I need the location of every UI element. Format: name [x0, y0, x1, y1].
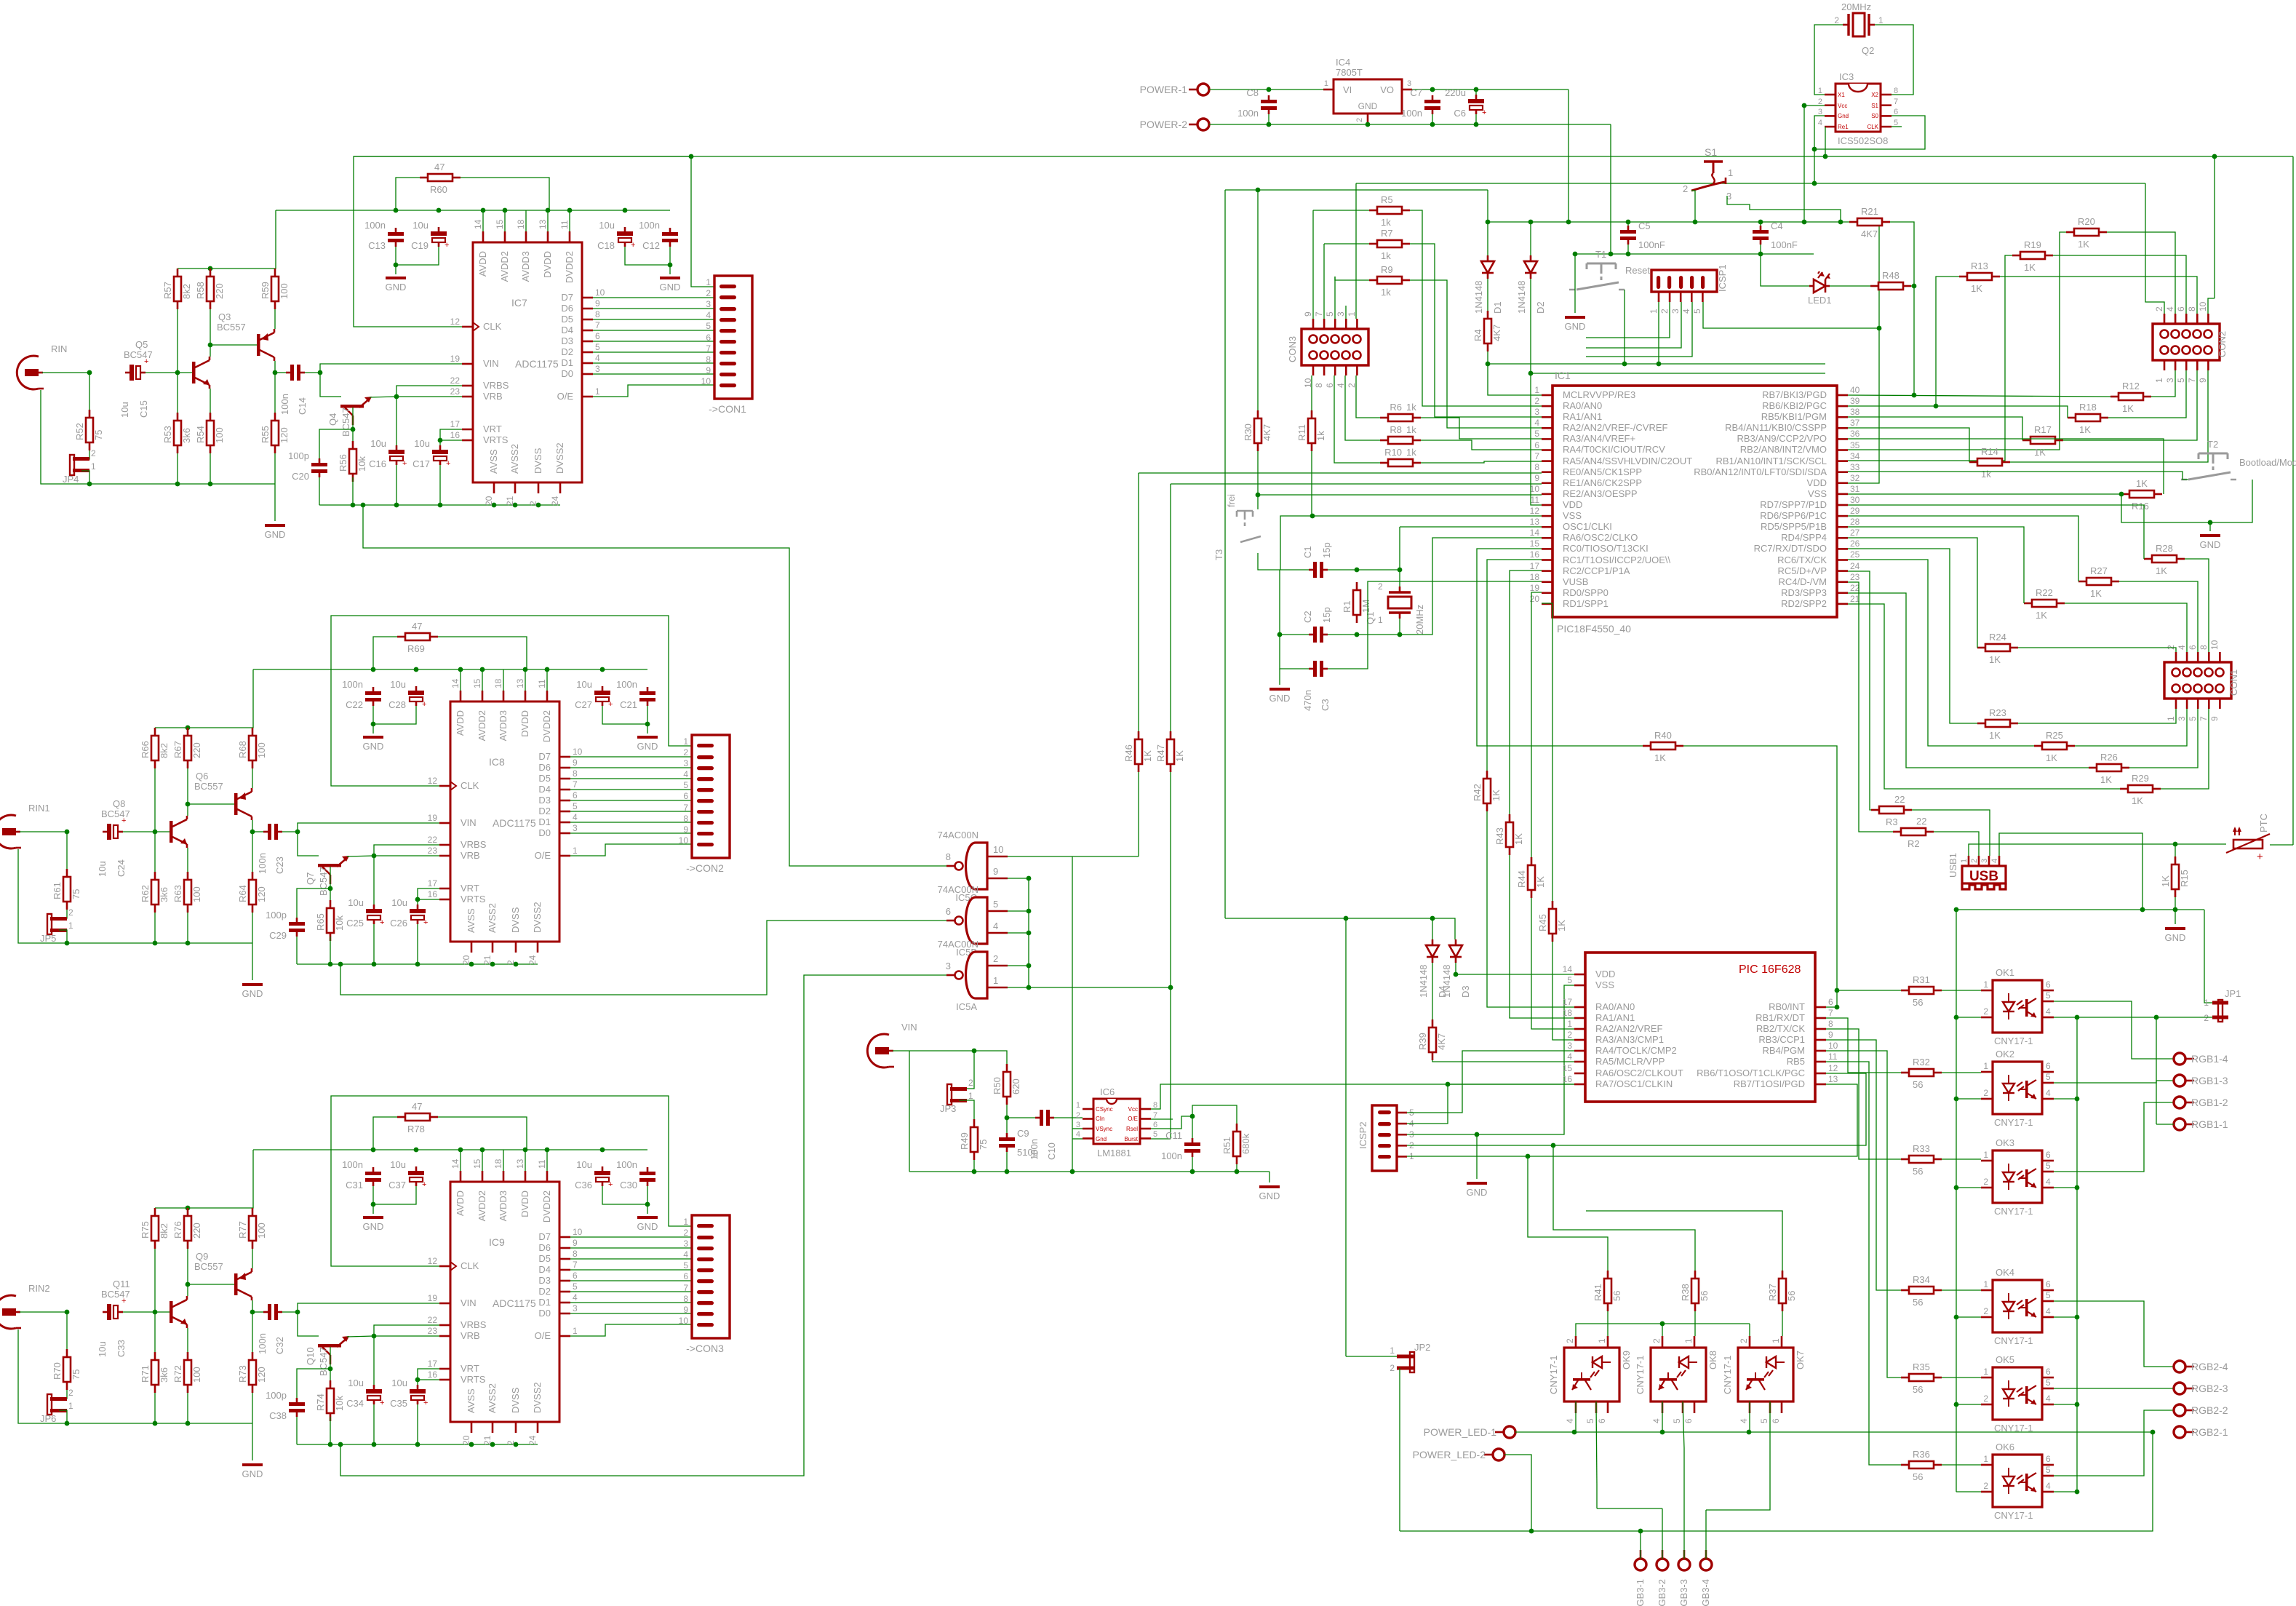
- clock multiplier IC3 ICS502SO8: [1835, 84, 1881, 132]
- wire rgb1-1 riser: [2156, 1017, 2157, 1124]
- svg-text:RA3/AN4/VREF+: RA3/AN4/VREF+: [1563, 433, 1635, 444]
- pad RGB2-1 RGB2-1: [2174, 1426, 2228, 1438]
- svg-text:OK9: OK9: [1621, 1351, 1632, 1370]
- connector VIN: [867, 1022, 917, 1068]
- wire r25 out: [2075, 709, 2187, 746]
- svg-text:OK7: OK7: [1795, 1351, 1806, 1370]
- node caps left: [1277, 632, 1283, 637]
- switch S1: [1683, 146, 1733, 202]
- svg-text:1K: 1K: [2100, 774, 2112, 785]
- svg-text:RD1/SPP1: RD1/SPP1: [1563, 598, 1609, 609]
- wire jp2 pin1 feed: [1346, 1356, 1397, 1357]
- wire clk stub: [1892, 126, 1902, 127]
- pad POWER-2 POWER-2: [1140, 119, 1209, 130]
- svg-text:1: 1: [1683, 1338, 1694, 1343]
- svg-text:10: 10: [595, 287, 605, 298]
- svg-text:2: 2: [1683, 183, 1688, 194]
- wire c4 stub: [1760, 222, 1761, 226]
- svg-text:RB5/KBI1/PGM: RB5/KBI1/PGM: [1761, 411, 1827, 422]
- svg-text:4: 4: [1739, 1418, 1749, 1423]
- svg-text:R8: R8: [1390, 424, 1402, 435]
- svg-text:5: 5: [1153, 1130, 1157, 1139]
- svg-text:1: 1: [1567, 1019, 1572, 1029]
- svg-text:GND: GND: [1467, 1187, 1488, 1198]
- svg-text:IC5A: IC5A: [956, 1001, 977, 1012]
- wire r28 out: [2185, 559, 2209, 652]
- svg-text:5: 5: [595, 342, 600, 352]
- svg-text:100n: 100n: [342, 679, 363, 690]
- svg-text:CLK: CLK: [461, 1260, 479, 1271]
- optocoupler OK1: [1981, 967, 2054, 1046]
- svg-text:C9: C9: [1017, 1128, 1029, 1139]
- svg-text:12: 12: [450, 317, 461, 327]
- svg-text:C6: C6: [1454, 108, 1466, 119]
- resistor R46: [1123, 731, 1153, 772]
- svg-text:IC7: IC7: [511, 297, 527, 309]
- svg-text:8k2: 8k2: [159, 743, 170, 758]
- svg-text:6: 6: [595, 331, 600, 341]
- svg-text:2: 2: [1076, 1111, 1080, 1120]
- svg-text:10u: 10u: [390, 679, 406, 690]
- svg-text:7: 7: [1153, 1111, 1157, 1120]
- svg-text:AVSS: AVSS: [466, 1388, 477, 1413]
- ADC U IC8: [450, 701, 559, 942]
- wire rd2 to r29: [1848, 604, 2120, 789]
- wire emitter gnd: [187, 1393, 188, 1423]
- wire r42 to pic2 RA0: [1487, 811, 1574, 1007]
- svg-text:220: 220: [191, 1223, 202, 1239]
- capacitor C4: [1753, 220, 1798, 250]
- svg-text:10u: 10u: [97, 1341, 108, 1357]
- wire ok9 p5 down: [1596, 1484, 1598, 1508]
- svg-text:2: 2: [68, 1388, 73, 1398]
- wire data D1: [570, 1302, 692, 1303]
- node railA con2: [2212, 154, 2217, 159]
- svg-text:10: 10: [701, 376, 711, 386]
- svg-text:CSync: CSync: [1096, 1106, 1113, 1113]
- svg-text:9: 9: [595, 298, 600, 309]
- pad RGB3-1: [1635, 1550, 1646, 1606]
- node RIN input: [65, 830, 70, 835]
- svg-text:1: 1: [1878, 15, 1884, 25]
- svg-text:RE2/AN3/OESPP: RE2/AN3/OESPP: [1563, 488, 1638, 499]
- wire icsp2 gnd: [1476, 1134, 1478, 1179]
- node base divider: [175, 370, 180, 375]
- resistor 1K: [2160, 856, 2190, 897]
- wire vrt cap gnd: [439, 465, 441, 505]
- svg-text:BC547: BC547: [318, 1347, 329, 1376]
- wire q1 t: [1399, 570, 1400, 587]
- wire r6 left: [1356, 375, 1380, 418]
- svg-text:GND: GND: [363, 741, 384, 752]
- wire led anode: [1761, 254, 1809, 286]
- wire supply top rail: [155, 1150, 253, 1208]
- svg-text:20MHz: 20MHz: [1414, 605, 1425, 635]
- svg-text:MCLRVVPP/RE3: MCLRVVPP/RE3: [1563, 389, 1635, 400]
- pad POWER_LED-1 POWER_LED-1: [1424, 1426, 1515, 1438]
- svg-text:IC3: IC3: [1839, 71, 1854, 82]
- svg-text:GND: GND: [1358, 101, 1378, 111]
- wire VRB pin: [374, 855, 439, 856]
- svg-text:6: 6: [1597, 1418, 1607, 1423]
- svg-text:AVDD: AVDD: [477, 251, 488, 277]
- wire 7805 gnd: [1367, 124, 1368, 124]
- resistor R8: [1380, 424, 1421, 444]
- wire r16 gnd route: [2121, 494, 2210, 522]
- transistor Q3 BC557: [257, 329, 274, 361]
- wire data D1: [570, 822, 692, 823]
- svg-text:C28: C28: [388, 699, 406, 710]
- wire d4 down: [1432, 963, 1433, 1019]
- svg-text:R47: R47: [1155, 744, 1166, 762]
- svg-text:1k: 1k: [1381, 217, 1391, 228]
- svg-text:1: 1: [1378, 615, 1383, 625]
- node r48 out: [1912, 284, 1917, 289]
- svg-text:D3: D3: [1460, 985, 1471, 998]
- svg-text:Q2: Q2: [1862, 45, 1874, 56]
- wire avdd pin drop: [503, 1150, 504, 1171]
- svg-text:9: 9: [683, 824, 688, 835]
- svg-text:VSS: VSS: [1595, 979, 1614, 990]
- svg-text:RGB1-2: RGB1-2: [2191, 1097, 2228, 1108]
- svg-text:RB1/AN10/INT1/SCK/SCL: RB1/AN10/INT1/SCK/SCL: [1716, 456, 1827, 466]
- wire rb1 to r32: [1826, 1018, 1901, 1073]
- svg-text:X1: X1: [1838, 92, 1845, 98]
- wire c8 stub: [1268, 90, 1269, 91]
- wire r37 to ok7: [1782, 1311, 1783, 1336]
- svg-text:470n: 470n: [1302, 690, 1313, 711]
- wire to jumper pin2: [59, 910, 67, 918]
- wire c3 to vusb: [1368, 581, 1542, 644]
- svg-text:13: 13: [515, 1158, 525, 1169]
- svg-text:10k: 10k: [334, 1396, 345, 1411]
- node gnd rail a: [65, 1421, 70, 1426]
- wire 5V out: [1412, 89, 1568, 90]
- optocoupler OK7: [1722, 1336, 1806, 1423]
- resistor R24: [1977, 632, 2018, 665]
- wire data D4: [570, 789, 692, 790]
- svg-text:+: +: [446, 459, 450, 468]
- wire d4 stub: [1432, 918, 1433, 939]
- resistor R51: [1221, 1124, 1251, 1164]
- wire right caps gnd: [602, 706, 647, 724]
- wire VRT: [418, 889, 439, 899]
- wire cap to base: [146, 372, 192, 373]
- node Q collector: [186, 802, 191, 807]
- svg-text:100n: 100n: [1237, 108, 1259, 119]
- svg-text:4: 4: [2046, 1006, 2051, 1017]
- svg-text:DVSS: DVSS: [510, 907, 521, 933]
- node c6: [1474, 87, 1479, 92]
- svg-text:100p: 100p: [266, 1390, 287, 1401]
- svg-text:C13: C13: [368, 240, 386, 251]
- wire rd5 to r22: [1848, 527, 2024, 603]
- wire c1 right: [1328, 569, 1400, 571]
- node bus e: [1027, 985, 1032, 990]
- wire RIN to coupling cap: [20, 1311, 67, 1313]
- wire collector load: [187, 768, 188, 816]
- transistor Q9 BC557: [234, 1268, 252, 1300]
- svg-text:120: 120: [256, 1367, 267, 1383]
- svg-text:56: 56: [1786, 1291, 1797, 1301]
- wire vrt cap gnd: [417, 1404, 418, 1444]
- wire avdd pin drop: [503, 669, 504, 691]
- microcontroller IC2 PIC16F628: [1585, 953, 1815, 1102]
- svg-text:GND: GND: [660, 282, 681, 293]
- node left caps: [371, 722, 376, 727]
- svg-text:+: +: [608, 1180, 613, 1189]
- wire d- r2: [1848, 582, 1893, 832]
- wire pnp emitter: [252, 1249, 253, 1268]
- wire opto anode rail: [1576, 1324, 1750, 1336]
- svg-text:22: 22: [450, 375, 461, 386]
- wire r23 out: [2018, 709, 2176, 723]
- node vdd s1: [1693, 220, 1698, 225]
- svg-text:220: 220: [191, 742, 202, 758]
- svg-text:8k2: 8k2: [159, 1223, 170, 1239]
- resistor R34: [1901, 1274, 1942, 1308]
- wire data D4: [593, 330, 714, 331]
- wire c4 gnd: [1760, 245, 1761, 254]
- wire opto pin2: [1956, 1017, 1981, 1018]
- wire VIN: [305, 364, 462, 373]
- svg-text:8: 8: [1153, 1101, 1157, 1110]
- wire to r51 top: [1192, 1105, 1237, 1124]
- wire c8 to gnd: [1268, 114, 1269, 124]
- svg-text:DVSS2: DVSS2: [532, 902, 543, 933]
- svg-text:18: 18: [1563, 1008, 1573, 1018]
- svg-text:4: 4: [993, 921, 998, 931]
- svg-text:C35: C35: [390, 1398, 407, 1409]
- svg-text:1: 1: [1983, 979, 1988, 990]
- wire ic3 gnd loop s0: [1814, 116, 1925, 149]
- node top rail: [208, 266, 213, 271]
- wire con3 p9 up: [1312, 210, 1314, 319]
- svg-text:R54: R54: [195, 426, 206, 443]
- wire emitter resistor: [187, 1328, 188, 1352]
- svg-text:C20: C20: [292, 471, 309, 482]
- node q1 bot: [1398, 632, 1403, 637]
- svg-text:16: 16: [428, 1370, 438, 1380]
- svg-text:R58: R58: [195, 282, 206, 299]
- node vdd a: [1528, 220, 1534, 225]
- svg-text:VRBS: VRBS: [461, 839, 487, 850]
- wire Gnd pin tap: [1072, 1138, 1083, 1140]
- wire data D6: [593, 308, 714, 309]
- node VRB: [394, 394, 399, 399]
- svg-text:R77: R77: [237, 1221, 248, 1239]
- capacitor C19: [411, 220, 449, 251]
- wire ok8 p4: [1662, 1402, 1663, 1432]
- node opto rail a: [1660, 1321, 1665, 1327]
- wire railB: [1356, 183, 2145, 184]
- capacitor C7: [1401, 87, 1440, 119]
- svg-text:R57: R57: [162, 282, 173, 299]
- svg-text:DVSS: DVSS: [533, 448, 543, 474]
- node d1 top: [1486, 220, 1491, 225]
- node rgb2-1: [2150, 1430, 2156, 1435]
- transistor Q5 BC547: [192, 357, 210, 389]
- svg-text:34: 34: [1850, 451, 1860, 461]
- wire data D2: [570, 811, 692, 812]
- node R47 tap: [1168, 985, 1173, 990]
- wire usb pin1 to ptc: [1969, 844, 2226, 856]
- node left caps: [394, 263, 399, 268]
- svg-text:220: 220: [214, 283, 225, 299]
- wire gnd down: [1610, 124, 1611, 254]
- wire data D5: [570, 778, 692, 779]
- svg-text:R53: R53: [162, 426, 173, 443]
- resistor R66: [140, 728, 170, 768]
- wire r2 to usb: [1934, 832, 1979, 856]
- wire d2 rail: [1531, 373, 1825, 374]
- svg-text:OSC1/CLKI: OSC1/CLKI: [1563, 521, 1612, 532]
- resistor R73: [237, 1352, 267, 1393]
- wire ref cap1 gnd: [396, 465, 397, 505]
- svg-text:GND: GND: [1565, 321, 1586, 332]
- wire data D4: [570, 1269, 692, 1271]
- svg-text:4: 4: [1565, 1418, 1575, 1423]
- wire R46 down: [1138, 772, 1139, 856]
- svg-text:5: 5: [573, 1281, 578, 1292]
- pad RGB2-2 RGB2-2: [2174, 1404, 2228, 1416]
- svg-text:RC4/D-/VM: RC4/D-/VM: [1779, 576, 1827, 587]
- wire ff cap bottom: [296, 1417, 298, 1444]
- svg-text:LED1: LED1: [1808, 295, 1832, 306]
- svg-text:3: 3: [683, 758, 688, 768]
- svg-text:100n: 100n: [257, 1333, 268, 1354]
- svg-text:D3: D3: [538, 1275, 551, 1286]
- capacitor C38: [266, 1390, 305, 1421]
- wire pnp emitter: [252, 768, 253, 788]
- svg-text:5: 5: [683, 780, 688, 790]
- wire con3 p5 up: [1334, 277, 1336, 319]
- node icsp2 p3: [1475, 1132, 1480, 1137]
- svg-text:C14: C14: [297, 397, 308, 415]
- node avss rail a: [328, 962, 333, 967]
- svg-text:28: 28: [1850, 517, 1860, 527]
- svg-text:Q8: Q8: [113, 798, 125, 809]
- wire ref cap1 gnd: [373, 1404, 375, 1444]
- capacitor C35: [390, 1378, 428, 1409]
- resistor R22: [2024, 587, 2065, 621]
- svg-text:RA2/AN2/VREF: RA2/AN2/VREF: [1595, 1023, 1663, 1034]
- node opto cathode: [1954, 1185, 1959, 1190]
- svg-text:2: 2: [91, 448, 96, 458]
- svg-text:CNY17-1: CNY17-1: [1994, 1117, 2033, 1128]
- svg-text:7: 7: [1894, 98, 1898, 106]
- svg-text:RB5: RB5: [1787, 1056, 1805, 1067]
- svg-text:8: 8: [706, 354, 711, 365]
- svg-text:11: 11: [537, 679, 547, 688]
- svg-text:R30: R30: [1243, 424, 1253, 441]
- resistor R69: [397, 621, 438, 654]
- wire clk R left: [373, 1117, 397, 1150]
- resistor R4: [1472, 311, 1502, 351]
- svg-text:DVDD: DVDD: [519, 710, 530, 737]
- wire opto pin2: [1956, 1187, 1981, 1188]
- node r31 feed: [1835, 988, 1840, 993]
- svg-text:4: 4: [2177, 645, 2187, 650]
- node gnd a: [1609, 252, 1614, 257]
- svg-text:5: 5: [1534, 429, 1539, 439]
- svg-text:9: 9: [2209, 716, 2220, 721]
- svg-text:RA4/TOCLK/CMP2: RA4/TOCLK/CMP2: [1595, 1045, 1677, 1056]
- wire to R bottom: [252, 1312, 253, 1352]
- wire t1 down to mclr: [1624, 290, 1625, 364]
- svg-text:C19: C19: [411, 240, 428, 251]
- wire avdd pin drop: [460, 1150, 461, 1171]
- node avdd: [371, 667, 376, 672]
- svg-text:+: +: [422, 1180, 426, 1189]
- svg-text:OK8: OK8: [1707, 1351, 1718, 1370]
- svg-text:4: 4: [573, 1292, 578, 1303]
- wire d2 top: [1530, 222, 1531, 255]
- capacitor C22: [342, 679, 381, 710]
- svg-text:74AC00N: 74AC00N: [938, 884, 978, 895]
- svg-text:R63: R63: [172, 885, 183, 902]
- node avss pin24: [536, 503, 541, 508]
- svg-text:O/E: O/E: [557, 391, 574, 402]
- svg-text:GND: GND: [265, 529, 286, 540]
- svg-text:14: 14: [450, 1158, 461, 1169]
- resistor R68: [237, 728, 267, 768]
- svg-text:BC557: BC557: [194, 781, 223, 792]
- node vdd r21: [1877, 220, 1882, 225]
- svg-text:R44: R44: [1516, 870, 1527, 888]
- wire left caps gnd: [373, 706, 416, 724]
- wire IC1 VSS: [1280, 516, 1542, 570]
- svg-text:6: 6: [2188, 645, 2198, 650]
- node bus d: [1027, 963, 1032, 969]
- wire to JP2 pin1: [1345, 918, 1347, 1356]
- wire block3 clk to IC5A input: [340, 975, 946, 1476]
- node avss pin2: [490, 1442, 495, 1447]
- node emitter bus: [2075, 1097, 2080, 1102]
- capacitor C29: [266, 910, 305, 941]
- svg-text:O/E: O/E: [1128, 1116, 1138, 1122]
- svg-text:Q3: Q3: [218, 311, 231, 322]
- wire C9 gnd: [1006, 1152, 1008, 1172]
- svg-text:ICSP1: ICSP1: [1717, 264, 1728, 292]
- svg-text:R19: R19: [2024, 239, 2041, 250]
- svg-text:RC2/CCP1/P1A: RC2/CCP1/P1A: [1563, 565, 1630, 576]
- ground left caps: [363, 1217, 384, 1232]
- svg-text:56: 56: [1699, 1291, 1710, 1301]
- wire rd7 to r28: [1848, 505, 2144, 559]
- wire ok8 p5: [1683, 1402, 1684, 1448]
- node railA re1: [1823, 154, 1828, 159]
- ground right caps: [637, 1217, 658, 1232]
- svg-text:11: 11: [559, 220, 570, 229]
- wire VRTS: [418, 899, 439, 900]
- wire IC5B in2: [1008, 932, 1029, 934]
- svg-text:VRBS: VRBS: [461, 1319, 487, 1330]
- node avdd: [481, 208, 486, 213]
- svg-text:1M: 1M: [1360, 600, 1371, 613]
- jumper JP6: [40, 1388, 73, 1424]
- svg-text:D7: D7: [538, 1231, 551, 1242]
- svg-text:R10: R10: [1384, 447, 1402, 458]
- svg-text:10: 10: [1828, 1041, 1838, 1051]
- resistor R41: [1593, 1271, 1622, 1311]
- svg-text:BC547: BC547: [318, 867, 329, 896]
- svg-text:GND: GND: [637, 1221, 658, 1232]
- svg-text:5: 5: [2046, 990, 2051, 1001]
- svg-text:16: 16: [450, 430, 461, 440]
- node usb gnd: [2140, 907, 2145, 913]
- svg-text:RA6/OSC2/CLKOUT: RA6/OSC2/CLKOUT: [1595, 1068, 1683, 1078]
